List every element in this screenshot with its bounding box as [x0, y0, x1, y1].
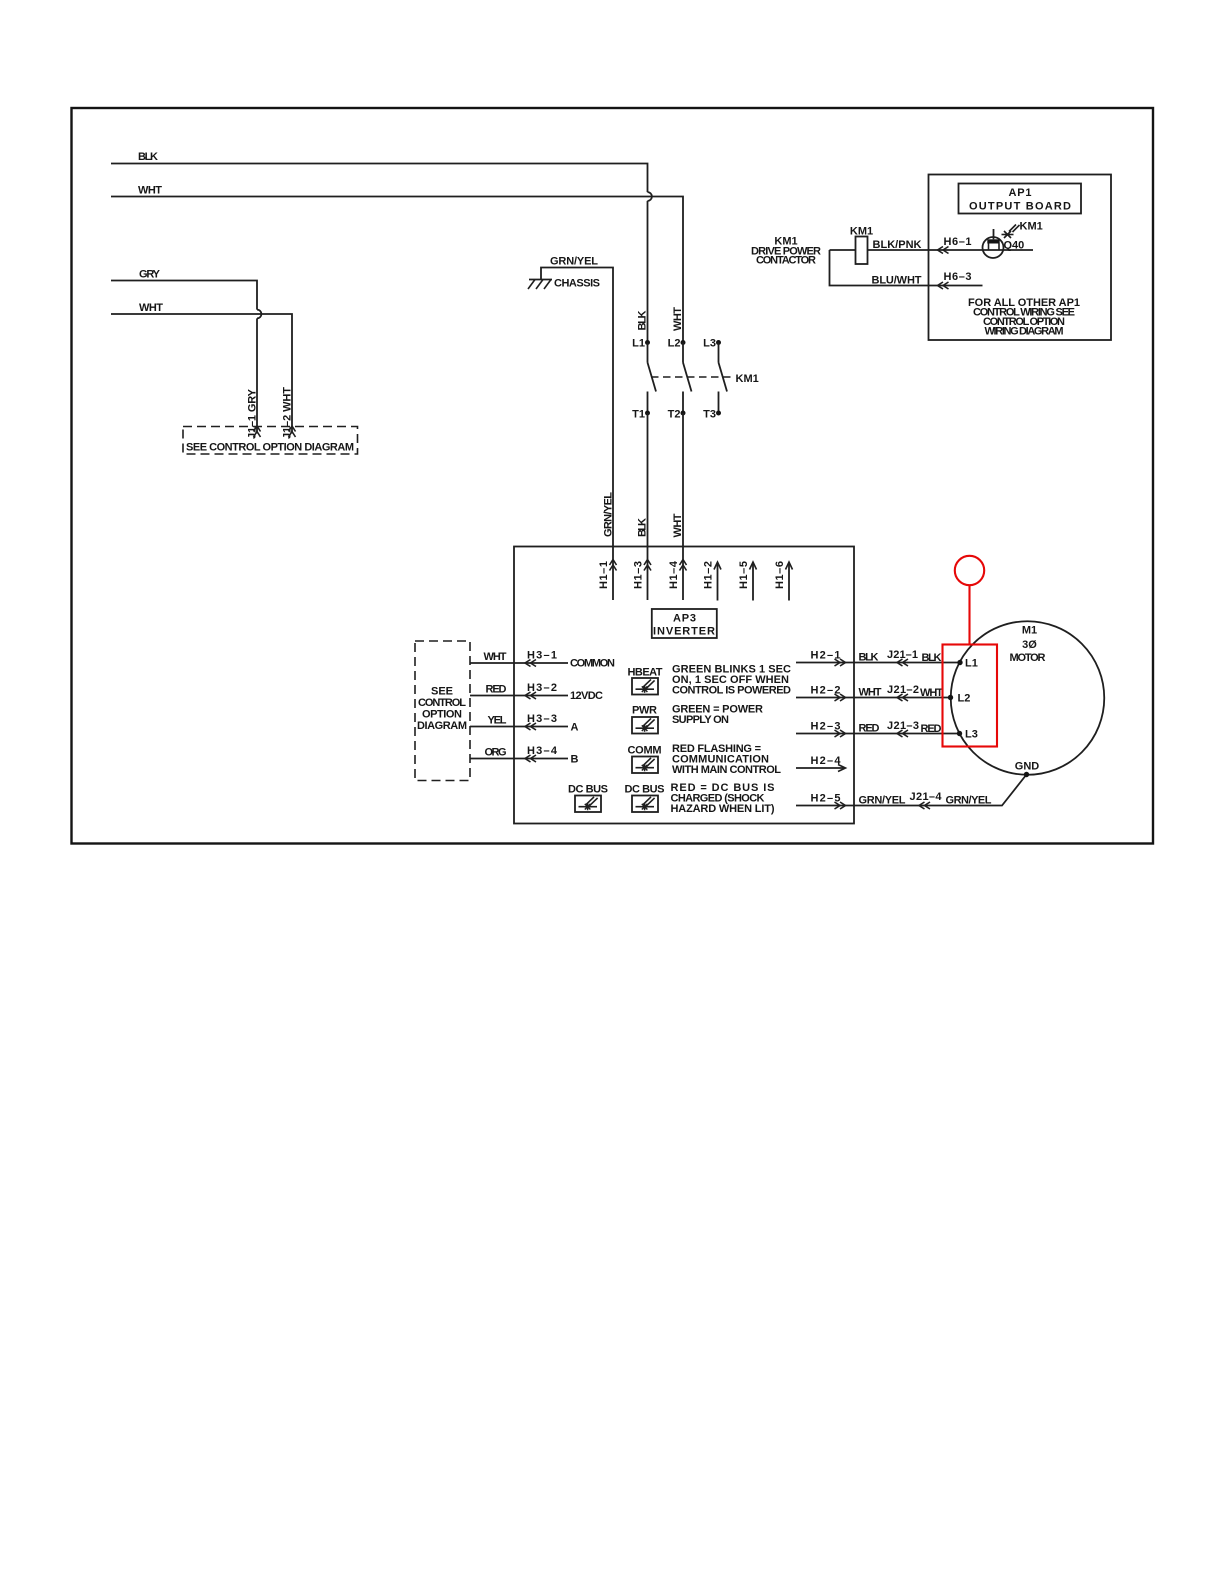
pin arrow H3-4	[525, 755, 536, 762]
svg-text:H1–2: H1–2	[703, 561, 715, 589]
wire WHT (to J1-2)	[111, 314, 292, 434]
pin H1-3 arrow	[644, 560, 651, 571]
svg-text:H6–3: H6–3	[944, 271, 972, 283]
svg-text:BLU/WHT: BLU/WHT	[872, 275, 922, 287]
net GRN/YEL	[541, 268, 613, 601]
wire BLK (top feed)	[111, 164, 652, 343]
wire GRY	[111, 281, 261, 434]
page border frame (decorative)	[72, 108, 1154, 844]
svg-text:COMM: COMM	[628, 745, 662, 757]
svg-text:RED: RED	[859, 723, 880, 735]
svg-text:KM1: KM1	[850, 226, 873, 238]
svg-text:H6–1: H6–1	[944, 236, 972, 248]
pin H1-4 arrow	[680, 560, 687, 571]
svg-text:WHT: WHT	[138, 185, 162, 197]
terminal L3 (motor)	[957, 731, 962, 736]
LED PWR	[632, 717, 658, 734]
motor M1 circle	[951, 621, 1105, 775]
svg-text:L3: L3	[703, 338, 716, 350]
LED HBEAT	[632, 678, 658, 695]
note box SEE CONTROL OPTION DIAGRAM (dashed)	[183, 427, 358, 455]
svg-text:L3: L3	[965, 729, 978, 741]
pin arrow H2-2	[835, 694, 846, 701]
svg-text:CONTACTOR: CONTACTOR	[756, 255, 816, 267]
svg-text:GRN/YEL: GRN/YEL	[550, 256, 598, 268]
svg-text:INVERTER: INVERTER	[653, 626, 715, 638]
connector arrow J21-3	[897, 730, 908, 737]
LED DC BUS (left)	[575, 796, 601, 813]
svg-text:M1: M1	[1022, 625, 1037, 637]
wire H2-1 BLK (to motor L1)	[796, 662, 960, 664]
svg-text:DC BUS: DC BUS	[568, 784, 608, 796]
svg-text:H1–5: H1–5	[738, 561, 750, 589]
svg-text:WHT: WHT	[672, 307, 684, 331]
svg-text:AP3: AP3	[673, 613, 696, 625]
svg-text:H3–1: H3–1	[527, 650, 557, 662]
connector arrow J1-1	[254, 426, 261, 437]
svg-text:T3: T3	[703, 409, 716, 421]
LED DC BUS (right)	[632, 796, 658, 813]
svg-text:A: A	[571, 722, 579, 734]
pin arrow H2-1	[835, 659, 846, 666]
contactor KM1 pole 2 (L2/T2)	[681, 340, 692, 416]
note text FOR ALL OTHER AP1 ...	[968, 297, 1080, 338]
svg-text:J21–4: J21–4	[910, 791, 943, 803]
svg-text:DIAGRAM: DIAGRAM	[417, 720, 467, 732]
pin H1-5 arrow	[750, 562, 757, 601]
contactor KM1 pole 1 (L1/T1)	[645, 340, 656, 416]
svg-text:L2: L2	[668, 338, 681, 350]
svg-text:H3–2: H3–2	[527, 682, 557, 694]
svg-text:COMMON: COMMON	[570, 658, 615, 670]
svg-text:RED: RED	[921, 723, 942, 735]
chassis ground	[528, 280, 552, 290]
svg-text:H2–5: H2–5	[811, 793, 841, 805]
pin arrow H3-1	[525, 660, 536, 667]
svg-text:WHT: WHT	[484, 651, 507, 663]
board AP1 title box	[959, 184, 1082, 214]
connector arrow J21-1	[897, 659, 908, 666]
wire BLK/PNK (coil to H6-1)	[868, 249, 1034, 251]
svg-text:KM1: KM1	[1020, 221, 1043, 233]
svg-text:J21–2: J21–2	[887, 684, 919, 696]
svg-text:L2: L2	[958, 693, 971, 705]
contactor KM1 pole 3 (L3/T3)	[716, 340, 727, 416]
pin H2-4 arrow	[796, 765, 846, 772]
svg-text:H3–3: H3–3	[527, 713, 557, 725]
svg-text:BLK/PNK: BLK/PNK	[873, 239, 922, 251]
pin H1-2 arrow	[714, 562, 721, 601]
svg-text:YEL: YEL	[488, 715, 507, 727]
svg-text:GRY: GRY	[139, 269, 161, 281]
svg-text:RED: RED	[486, 684, 507, 696]
svg-text:WHT: WHT	[139, 302, 163, 314]
svg-text:MOTOR: MOTOR	[1010, 652, 1046, 664]
svg-text:B: B	[571, 754, 579, 766]
svg-text:3Ø: 3Ø	[1022, 639, 1037, 651]
pin H1-6 arrow	[786, 562, 793, 601]
contactor KM1 linkage (dashed)	[651, 376, 734, 378]
svg-text:BLK: BLK	[637, 310, 649, 330]
svg-text:T1: T1	[632, 409, 645, 421]
board AP1 outline	[929, 175, 1112, 341]
svg-text:BLK: BLK	[138, 151, 158, 163]
wire RED (H3-2)	[470, 695, 568, 697]
svg-text:HBEAT: HBEAT	[628, 667, 663, 679]
wire BLK (T1 to inverter H1-3)	[647, 413, 649, 600]
transistor Q40	[983, 229, 1004, 258]
svg-text:H2–3: H2–3	[811, 721, 841, 733]
terminal GND (motor)	[1024, 772, 1029, 777]
pin arrow H2-3	[835, 730, 846, 737]
connector arrow J21-4	[919, 802, 930, 809]
pin arrow H3-3	[525, 723, 536, 730]
svg-text:BLK: BLK	[637, 518, 649, 537]
wire WHT (H3-1)	[470, 662, 568, 664]
wire WHT (T2 to inverter H1-4)	[682, 413, 684, 600]
svg-text:H1–6: H1–6	[774, 561, 786, 589]
svg-text:L1: L1	[632, 338, 645, 350]
terminal L1 (motor)	[957, 660, 962, 665]
svg-text:J21–1: J21–1	[887, 649, 918, 661]
svg-text:GRN/YEL: GRN/YEL	[859, 795, 906, 807]
svg-text:OUTPUT BOARD: OUTPUT BOARD	[969, 201, 1071, 213]
svg-text:H2–1: H2–1	[811, 650, 841, 662]
svg-text:DC BUS: DC BUS	[625, 784, 665, 796]
svg-text:Q40: Q40	[1004, 240, 1025, 252]
svg-text:L1: L1	[965, 658, 978, 670]
svg-text:ORG: ORG	[485, 747, 507, 759]
annotation red rectangle	[943, 645, 998, 747]
svg-text:CONTROL: CONTROL	[418, 697, 466, 709]
svg-text:BLK: BLK	[922, 652, 942, 664]
pin arrow H3-2	[525, 692, 536, 699]
svg-text:SUPPLY ON: SUPPLY ON	[672, 714, 729, 726]
wire ORG (H3-4)	[470, 758, 568, 760]
terminal L2 (motor)	[948, 695, 953, 700]
svg-text:SEE CONTROL OPTION DIAGRAM: SEE CONTROL OPTION DIAGRAM	[186, 442, 354, 454]
label KM1 DRIVE POWER CONTACTOR	[751, 236, 821, 267]
svg-text:SEE: SEE	[431, 686, 453, 698]
wire YEL (H3-3)	[470, 726, 568, 728]
svg-text:H1–1: H1–1	[598, 561, 610, 589]
pin arrow H6-1	[938, 247, 949, 254]
svg-text:12VDC: 12VDC	[570, 690, 603, 702]
svg-text:J21–3: J21–3	[887, 720, 919, 732]
note text SEE CONTROL OPTION DIAGRAM	[417, 686, 467, 733]
pin arrow H6-3	[938, 282, 949, 289]
svg-text:WITH MAIN CONTROL: WITH MAIN CONTROL	[672, 764, 781, 776]
inverter AP3 outline	[514, 547, 854, 824]
svg-text:GRN/YEL: GRN/YEL	[946, 795, 992, 807]
svg-text:AP1: AP1	[1009, 187, 1032, 199]
svg-text:WHT: WHT	[672, 513, 684, 537]
svg-text:KM1: KM1	[736, 373, 759, 385]
connector arrow J21-2	[897, 694, 908, 701]
svg-text:H3–4: H3–4	[527, 745, 558, 757]
wire H2-3 RED (to motor L3)	[796, 733, 960, 735]
label M1 3-phase MOTOR	[1010, 625, 1046, 665]
annotation red circle	[955, 556, 984, 585]
connector arrow J1-2	[289, 426, 296, 437]
svg-text:H2–2: H2–2	[811, 685, 841, 697]
LED COMM	[632, 757, 658, 774]
annotation red line	[968, 585, 970, 644]
wire BLU/WHT (coil to H6-3)	[830, 250, 983, 286]
text HBEAT description	[672, 664, 791, 697]
svg-text:GRN/YEL: GRN/YEL	[603, 492, 615, 537]
indicator lamp symbol (KM1 drive)	[1002, 225, 1020, 239]
coil KM1 (drive power contactor)	[830, 237, 868, 265]
svg-text:H2–4: H2–4	[811, 755, 842, 767]
svg-text:CHASSIS: CHASSIS	[554, 278, 600, 290]
svg-text:WHT: WHT	[859, 687, 882, 699]
svg-text:GND: GND	[1015, 761, 1040, 773]
svg-text:BLK: BLK	[859, 652, 879, 664]
svg-text:OPTION: OPTION	[422, 709, 462, 721]
text DC BUS description	[671, 782, 775, 815]
wire H2-5 GRN/YEL (to motor GND)	[796, 775, 1027, 806]
svg-text:WHT: WHT	[920, 687, 943, 699]
text COMM description	[672, 743, 781, 776]
wire WHT (top feed)	[111, 197, 683, 343]
svg-text:H1–4: H1–4	[668, 560, 680, 589]
text PWR description	[672, 704, 763, 727]
pin arrow H2-5	[835, 802, 846, 809]
note box SEE CONTROL OPTION DIAGRAM (dashed, left of AP3)	[415, 641, 470, 781]
svg-text:PWR: PWR	[632, 705, 657, 717]
svg-text:H1–3: H1–3	[633, 561, 645, 589]
inverter AP3 title box	[652, 609, 717, 638]
svg-text:WIRING DIAGRAM: WIRING DIAGRAM	[985, 326, 1064, 338]
svg-text:T2: T2	[668, 409, 681, 421]
svg-text:HAZARD WHEN LIT): HAZARD WHEN LIT)	[671, 803, 775, 815]
svg-text:CONTROL IS POWERED: CONTROL IS POWERED	[672, 685, 791, 697]
wire H2-2 WHT (to motor L2)	[796, 697, 951, 699]
pin H1-1 arrow	[610, 560, 617, 571]
